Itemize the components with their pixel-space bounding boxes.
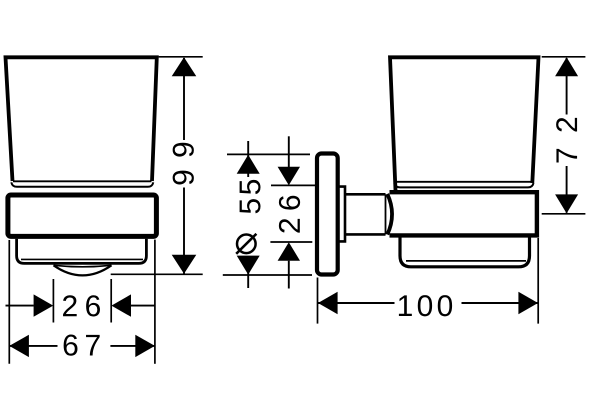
- dim 67: label: [64, 335, 100, 356]
- dim D55: bottom extension line: [223, 274, 312, 276]
- dim 72: label: [556, 118, 577, 163]
- dim D55: top extension line: [227, 153, 310, 155]
- dim 67: left extension line: [8, 240, 10, 364]
- dim 99: label: [173, 143, 194, 185]
- dim D55: dimension line upper segment: [247, 141, 249, 177]
- dim 72: bottom arrow: [555, 194, 578, 213]
- holder band front: [8, 195, 157, 236]
- dim D55: diameter symbol circle: [237, 235, 256, 254]
- dim 67: left arrow: [9, 335, 29, 357]
- ring inner bottom line: [21, 258, 143, 260]
- dim 72: top extension line: [542, 56, 586, 58]
- dim D55: label: [240, 180, 261, 214]
- dim 72: dimension line lower segment: [566, 166, 568, 213]
- dim 72: top arrow: [555, 57, 578, 76]
- arm top edge: [345, 193, 386, 196]
- holder lower ring front: [17, 239, 147, 264]
- dim 72: dimension line upper segment: [566, 58, 568, 115]
- glass bottom bulge upper arc: [54, 265, 112, 267]
- dim 26 front: left arrow: [34, 294, 54, 316]
- dim 100: right arrow: [518, 292, 538, 314]
- dim 99: top arrow: [172, 57, 197, 76]
- dim 26 front: label: [63, 295, 100, 316]
- dim 26 side: bottom tail: [288, 261, 290, 289]
- dim 100: right extension line: [537, 238, 539, 324]
- glass tumbler front outline: [6, 57, 157, 181]
- dim 100: dimension line left segment: [318, 302, 395, 304]
- dim 99: dimension line lower segment: [183, 188, 185, 274]
- holder lower ring side: [400, 236, 530, 267]
- dim D55: diameter symbol slash: [236, 234, 256, 254]
- glass side rim line upper: [396, 181, 532, 183]
- dim 26 side: top extension line: [271, 184, 316, 186]
- dim 100: label: [399, 295, 452, 316]
- dim 67: right arrow: [135, 335, 155, 357]
- dim 100: left arrow: [318, 292, 338, 314]
- arm bottom edge: [345, 233, 386, 236]
- dim 26 side: label: [279, 196, 300, 233]
- glass rim line upper: [13, 180, 152, 182]
- dim 26 side: bottom arrow: [278, 242, 300, 260]
- ring side inner line: [406, 260, 526, 262]
- dim 67: right extension line: [154, 240, 156, 364]
- glass bottom bulge lower arc: [54, 265, 112, 275]
- dim 100: left extension line: [317, 278, 319, 324]
- dim 99: dimension line upper segment: [183, 58, 185, 140]
- dim 99: top extension line: [159, 56, 203, 58]
- dim 67: dimension line right segment: [110, 345, 154, 347]
- dim 26 front: right tail: [131, 305, 155, 307]
- dim 26 front: left tail: [6, 305, 34, 307]
- dim 26 front: left extension line: [52, 279, 54, 323]
- dim 26 side: top tail: [288, 136, 290, 167]
- dim D55: bottom arrow: [237, 256, 260, 275]
- clamp end cap: [387, 194, 392, 235]
- glass side rim line lower: [394, 183, 533, 187]
- dim D55: top arrow: [237, 155, 260, 174]
- dim 26 front: right extension line: [110, 279, 112, 323]
- dim 100: dimension line right segment: [462, 302, 539, 304]
- dim 26 front: right arrow: [111, 294, 131, 316]
- dim 72: bottom extension line: [542, 213, 586, 215]
- dim 26 side: bottom extension line: [270, 241, 312, 243]
- dim 99: bottom arrow: [172, 255, 197, 274]
- dim 26 side: top arrow: [278, 167, 300, 185]
- wall rosette: [317, 154, 338, 275]
- collar ring: [338, 187, 345, 242]
- arm end line: [385, 194, 387, 234]
- glass tumbler side outline: [390, 57, 539, 190]
- dim 67: dimension line left segment: [9, 345, 57, 347]
- dim D55: dimension line lower segment: [247, 258, 249, 288]
- glass rim line lower with curved ends: [11, 182, 153, 187]
- holder band side: [390, 192, 537, 235]
- dim 99: bottom extension line: [111, 273, 203, 275]
